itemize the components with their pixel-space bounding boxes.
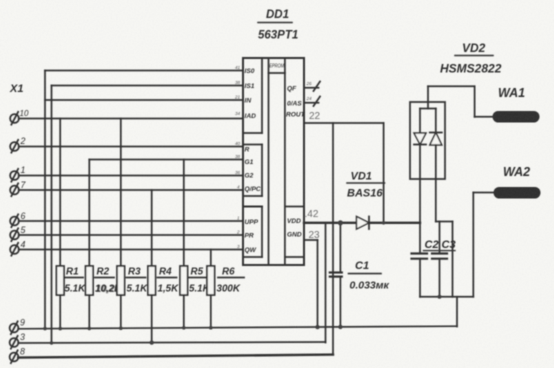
wire IN [45,99,243,101]
pin QF stub (n.c.) [304,81,320,91]
X1 pin 7 [10,180,26,196]
ROUT bus wire (X1.8 row) [18,123,333,358]
diode pair VD2 [410,86,453,296]
X1 pin 3 [10,332,25,349]
IC DD1 left pin numbers [234,65,241,249]
antenna WA2 [494,165,541,199]
X1 pin 5 [10,225,25,241]
IC DD1 left pin names [245,68,261,254]
resistor R5 [180,160,211,328]
capacitor C3 [432,222,456,297]
IC DD1 right pin names [286,86,306,239]
GND bus wire (X1.9 row) [18,326,457,329]
wire IS0 to GND bus [45,71,243,329]
wire X1.7 to Q/PC [19,189,243,191]
X1 pin 9 [10,318,25,335]
resistor R4 [148,190,179,343]
wire X1.4 to QW [19,249,243,251]
resistor R6 [207,250,244,328]
wire WA2 to C2/C3 bottom [473,193,494,297]
diode VD1 [347,171,385,230]
wire X1.10 to IAD [19,118,243,120]
wire X1.5 to PR [19,234,243,236]
wire G1 row [89,159,243,161]
X1 pin 8 [10,347,25,364]
pin 0/AS stub (n.c.) [304,96,320,106]
wire VDD node [304,222,420,224]
X1 pin 1 [10,165,25,182]
wire X1.2 to R [19,146,243,148]
resistor R3 [117,119,148,329]
antenna WA1 [493,86,540,123]
X1 pin 10 [10,109,29,125]
wire VD2 to WA1 [428,86,493,117]
IC DD1 body [243,58,304,265]
diode pair VD2 label [440,41,502,76]
resistor R2 [86,160,123,329]
resistor R1 [56,119,86,329]
wire X1.1 to G2 [19,175,243,177]
wire ROUT pin 22 [304,123,384,223]
+V bus wire (X1.3 row) [18,223,325,343]
capacitor C2 [412,239,439,297]
wire IS1 to +bus [52,86,244,343]
X1 pin 2 [10,136,25,153]
IC DD1 label [258,9,298,42]
junction dots [43,220,441,345]
wire GND pin 23 [304,240,318,327]
wire C2/C3 bottom node [420,296,473,298]
capacitor C1 [330,223,390,327]
wire X1.6 to UPP [19,220,243,222]
X1 pin 4 [10,240,25,256]
X1 pin 6 [10,211,25,227]
